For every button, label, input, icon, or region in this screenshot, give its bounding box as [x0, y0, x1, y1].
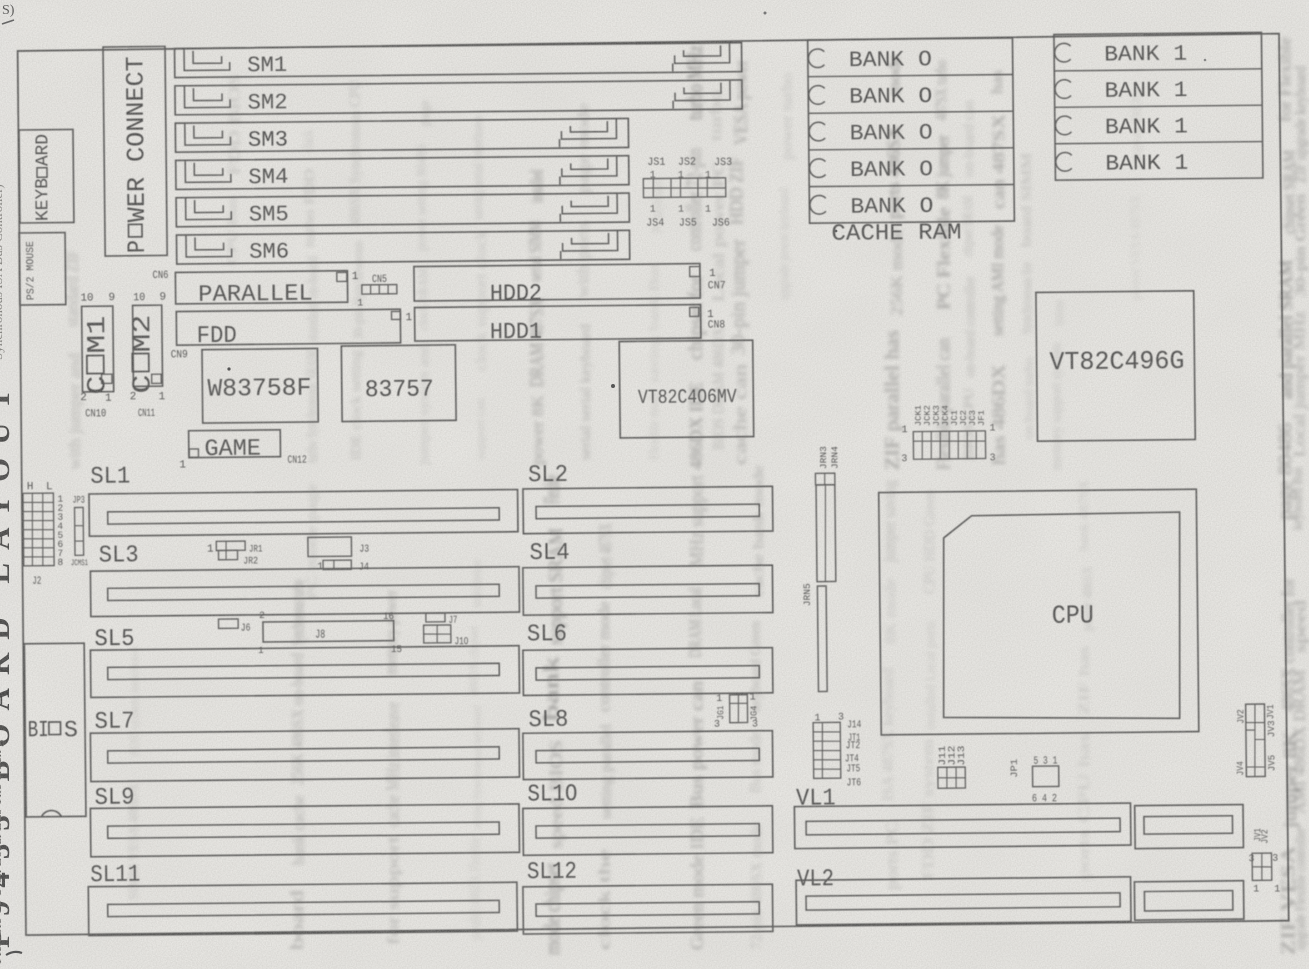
svg-text:SM1: SM1 — [247, 53, 287, 78]
svg-text:P: P — [123, 240, 152, 253]
svg-text:1: 1 — [357, 298, 363, 309]
svg-text:SM2: SM2 — [247, 90, 287, 115]
svg-text:VT82C4O6MV: VT82C4O6MV — [638, 386, 737, 410]
svg-text:J1O: J1O — [454, 636, 468, 648]
svg-text:CN11: CN11 — [138, 408, 155, 420]
svg-text:SL3: SL3 — [99, 542, 139, 569]
svg-text:WER CONNECT: WER CONNECT — [121, 56, 152, 222]
svg-text:83757: 83757 — [365, 376, 434, 404]
svg-text:1: 1 — [1274, 884, 1280, 895]
svg-text:JS1: JS1 — [647, 157, 665, 169]
svg-text:BANK O: BANK O — [849, 84, 932, 110]
svg-text:ARD: ARD — [33, 134, 53, 166]
svg-text:CN6: CN6 — [152, 270, 168, 282]
svg-text:JP3: JP3 — [72, 496, 85, 507]
svg-text:CPU: CPU — [1052, 600, 1094, 630]
svg-text:JV3: JV3 — [1266, 720, 1277, 737]
svg-text:J8: J8 — [315, 628, 325, 642]
svg-text:3: 3 — [714, 719, 720, 730]
svg-text:SM6: SM6 — [249, 239, 289, 264]
svg-text:1: 1 — [179, 459, 186, 471]
svg-text:1: 1 — [352, 271, 359, 283]
svg-text:1: 1 — [709, 268, 716, 280]
svg-text:3: 3 — [1272, 854, 1278, 865]
svg-text:SL6: SL6 — [527, 621, 567, 648]
svg-text:SL11: SL11 — [90, 862, 140, 890]
svg-text:1: 1 — [405, 312, 412, 324]
svg-text:SL7: SL7 — [94, 709, 134, 736]
svg-text:1: 1 — [814, 713, 820, 724]
svg-text:1: 1 — [902, 425, 908, 436]
svg-text:BANK O: BANK O — [850, 194, 933, 220]
svg-text:HDD1: HDD1 — [490, 319, 542, 346]
svg-text:J3: J3 — [359, 544, 369, 556]
svg-text:BI: BI — [28, 717, 49, 743]
svg-text:JT2: JT2 — [845, 740, 860, 752]
svg-text:8: 8 — [57, 557, 63, 568]
svg-text:W83758F: W83758F — [207, 374, 311, 404]
svg-text:3: 3 — [752, 720, 758, 731]
svg-text:SL4: SL4 — [529, 540, 569, 567]
svg-text:1: 1 — [258, 645, 264, 656]
svg-text:HDD2: HDD2 — [490, 280, 542, 307]
svg-text:BANK 1: BANK 1 — [1105, 151, 1188, 177]
svg-text:JRN4: JRN4 — [830, 446, 840, 469]
svg-text:1: 1 — [750, 692, 756, 703]
svg-text:1: 1 — [705, 205, 711, 216]
svg-text:J2: J2 — [32, 576, 41, 588]
svg-text:SM3: SM3 — [248, 127, 288, 152]
svg-text:SM4: SM4 — [248, 165, 288, 190]
svg-text:FDD: FDD — [197, 323, 237, 350]
svg-text:CN9: CN9 — [171, 349, 188, 361]
svg-text:JR1: JR1 — [249, 544, 263, 555]
svg-text:CACHE RAM: CACHE RAM — [831, 219, 961, 246]
svg-text:1: 1 — [650, 170, 656, 181]
svg-text:JS5: JS5 — [679, 217, 697, 229]
svg-text:M1: M1 — [82, 316, 112, 354]
svg-text:PARALLEL: PARALLEL — [198, 281, 313, 309]
svg-text:BANK O: BANK O — [850, 121, 933, 147]
svg-text:M2: M2 — [127, 314, 157, 352]
svg-text:3: 3 — [901, 454, 907, 465]
svg-text:BANK 1: BANK 1 — [1104, 42, 1187, 68]
svg-text:JS6: JS6 — [712, 217, 730, 229]
svg-text:SL12: SL12 — [527, 859, 577, 887]
svg-text:JRN5: JRN5 — [802, 583, 813, 606]
svg-text:CN8: CN8 — [708, 319, 726, 331]
svg-text:1: 1 — [989, 423, 995, 434]
svg-text:1: 1 — [716, 694, 722, 705]
svg-text:3: 3 — [838, 713, 844, 724]
svg-text:1: 1 — [207, 544, 214, 556]
svg-text:1: 1 — [159, 391, 166, 403]
svg-text:JF1: JF1 — [977, 410, 987, 426]
svg-text:CN12: CN12 — [287, 455, 306, 467]
svg-text:1: 1 — [1253, 884, 1259, 895]
svg-text:3: 3 — [1248, 854, 1254, 865]
svg-text:JS4: JS4 — [646, 217, 664, 229]
svg-text:SM5: SM5 — [249, 202, 289, 227]
svg-text:JV4: JV4 — [1235, 761, 1246, 776]
svg-text:2: 2 — [259, 610, 265, 621]
svg-text:SL8: SL8 — [528, 707, 568, 734]
svg-text:BANK 1: BANK 1 — [1105, 114, 1188, 140]
svg-text:J6: J6 — [241, 623, 251, 635]
svg-text:JR2: JR2 — [243, 556, 258, 567]
svg-text:1: 1 — [678, 205, 684, 216]
svg-text:15: 15 — [391, 645, 402, 656]
svg-text:SL2: SL2 — [528, 462, 568, 489]
svg-text:9: 9 — [108, 292, 115, 304]
svg-text:CN10: CN10 — [85, 408, 106, 420]
svg-text:CN7: CN7 — [708, 280, 726, 292]
svg-text:1: 1 — [105, 393, 112, 405]
svg-text:JT5: JT5 — [846, 763, 860, 775]
svg-text:1: 1 — [650, 205, 656, 216]
svg-text:PS/2 MOUSE: PS/2 MOUSE — [25, 241, 38, 300]
svg-text:H: H — [27, 481, 34, 493]
svg-text:KEYB: KEYB — [33, 178, 53, 221]
svg-text:JV2: JV2 — [1259, 829, 1270, 844]
svg-text:2: 2 — [80, 392, 87, 404]
svg-text:SL1O: SL1O — [527, 781, 577, 809]
svg-text:JG1: JG1 — [716, 706, 726, 720]
svg-text:SL1: SL1 — [90, 463, 130, 490]
svg-text:L: L — [46, 481, 53, 493]
svg-text:VT82C496G: VT82C496G — [1049, 346, 1184, 377]
svg-text:JS2: JS2 — [678, 157, 696, 169]
svg-text:BANK 1: BANK 1 — [1104, 78, 1187, 104]
svg-text:JCMS1: JCMS1 — [71, 558, 88, 568]
svg-text:JV1: JV1 — [1265, 704, 1276, 719]
svg-text:GAME: GAME — [204, 436, 261, 464]
svg-text:2: 2 — [130, 391, 137, 403]
svg-text:J13: J13 — [956, 745, 967, 765]
svg-text:9: 9 — [159, 292, 166, 304]
svg-text:JT6: JT6 — [846, 777, 861, 789]
svg-text:16: 16 — [383, 612, 394, 623]
svg-text:J14: J14 — [847, 719, 861, 731]
svg-text:1: 1 — [678, 170, 684, 181]
svg-text:JRN3: JRN3 — [819, 446, 829, 469]
svg-text:10: 10 — [133, 292, 145, 304]
svg-text:10: 10 — [80, 292, 93, 304]
svg-text:JV5: JV5 — [1266, 754, 1277, 771]
svg-text:VL1: VL1 — [796, 785, 836, 812]
svg-text:S: S — [64, 717, 78, 743]
svg-text:JV2: JV2 — [1235, 709, 1246, 724]
svg-text:JS3: JS3 — [714, 157, 732, 169]
svg-text:BANK O: BANK O — [850, 157, 933, 183]
svg-text:BANK O: BANK O — [849, 47, 932, 73]
svg-text:3: 3 — [990, 453, 996, 464]
svg-text:1: 1 — [705, 170, 711, 181]
svg-text:JP1: JP1 — [1009, 758, 1020, 777]
svg-text:J4: J4 — [359, 562, 370, 574]
